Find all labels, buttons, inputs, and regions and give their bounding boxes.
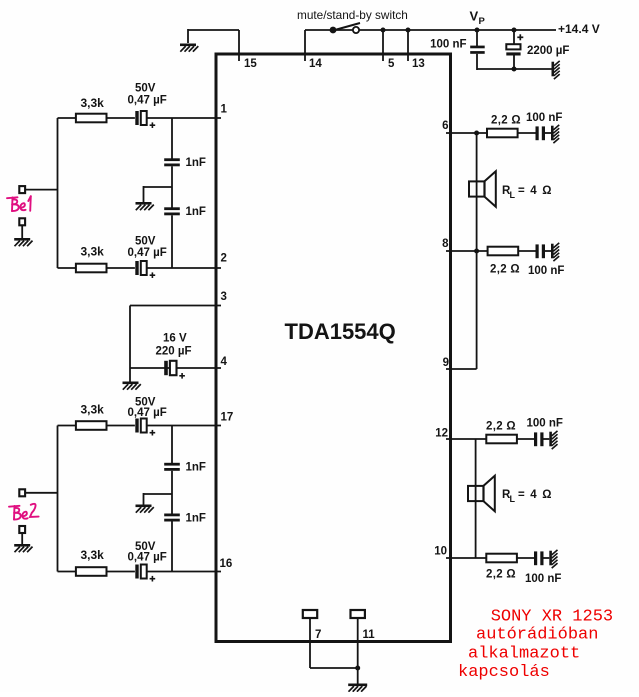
svg-text:50V: 50V — [135, 236, 156, 248]
svg-text:220 µF: 220 µF — [156, 346, 192, 358]
svg-text:2,2 Ω: 2,2 Ω — [486, 421, 516, 433]
svg-text:V: V — [470, 9, 479, 24]
svg-text:mute/stand-by switch: mute/stand-by switch — [297, 8, 408, 22]
svg-text:SONY XR 1253: SONY XR 1253 — [491, 608, 613, 627]
svg-text:L: L — [510, 190, 516, 200]
svg-text:100 nF: 100 nF — [527, 418, 563, 430]
svg-text:kapcsolás: kapcsolás — [458, 663, 550, 682]
svg-text:2200 µF: 2200 µF — [527, 45, 569, 57]
svg-text:3,3k: 3,3k — [81, 403, 105, 417]
svg-text:1: 1 — [221, 104, 228, 116]
svg-text:17: 17 — [221, 412, 234, 424]
svg-text:14: 14 — [309, 58, 322, 70]
svg-text:0,47 µF: 0,47 µF — [128, 552, 167, 564]
svg-text:11: 11 — [363, 629, 376, 641]
svg-text:9: 9 — [443, 357, 449, 369]
svg-text:2,2 Ω: 2,2 Ω — [491, 115, 521, 127]
svg-text:1nF: 1nF — [186, 157, 206, 169]
svg-text:L: L — [510, 494, 516, 504]
svg-text:6: 6 — [442, 120, 448, 132]
svg-text:TDA1554Q: TDA1554Q — [285, 319, 396, 344]
svg-text:4: 4 — [221, 356, 228, 368]
svg-text:100 nF: 100 nF — [528, 265, 564, 277]
svg-text:15: 15 — [244, 58, 257, 70]
svg-text:= 4 Ω: = 4 Ω — [518, 489, 553, 501]
svg-text:autórádióban: autórádióban — [476, 626, 598, 645]
svg-text:100 nF: 100 nF — [526, 112, 562, 124]
svg-text:50V: 50V — [135, 83, 156, 95]
svg-text:5: 5 — [388, 58, 395, 70]
svg-text:12: 12 — [435, 428, 448, 440]
svg-text:100 nF: 100 nF — [430, 38, 466, 50]
svg-text:100 nF: 100 nF — [525, 573, 561, 585]
svg-text:3: 3 — [221, 291, 227, 303]
svg-text:1nF: 1nF — [186, 206, 206, 218]
svg-text:+14.4 V: +14.4 V — [558, 22, 600, 36]
svg-text:10: 10 — [434, 546, 447, 558]
svg-text:2,2 Ω: 2,2 Ω — [486, 569, 516, 581]
svg-text:0,47 µF: 0,47 µF — [128, 407, 167, 419]
svg-text:0,47 µF: 0,47 µF — [128, 247, 167, 259]
svg-text:1nF: 1nF — [186, 513, 206, 525]
svg-text:3,3k: 3,3k — [81, 96, 105, 110]
svg-text:= 4 Ω: = 4 Ω — [518, 185, 553, 197]
svg-text:8: 8 — [442, 238, 449, 250]
svg-text:2: 2 — [221, 253, 227, 265]
svg-text:1nF: 1nF — [186, 462, 206, 474]
svg-text:7: 7 — [315, 629, 321, 641]
svg-text:0,47 µF: 0,47 µF — [128, 95, 167, 107]
svg-text:13: 13 — [412, 58, 425, 70]
svg-text:16 V: 16 V — [163, 333, 187, 345]
svg-text:16: 16 — [220, 558, 233, 570]
svg-text:2,2 Ω: 2,2 Ω — [490, 264, 520, 276]
svg-text:alkalmazott: alkalmazott — [468, 645, 580, 664]
svg-text:3,3k: 3,3k — [81, 245, 105, 259]
svg-text:P: P — [479, 16, 486, 27]
svg-text:3,3k: 3,3k — [81, 548, 105, 562]
